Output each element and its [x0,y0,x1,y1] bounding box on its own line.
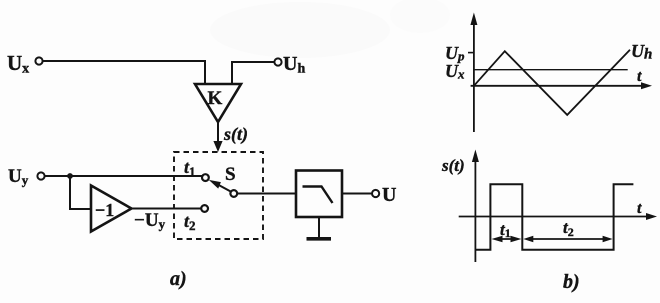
svg-text:s(t): s(t) [441,156,465,175]
svg-text:t2: t2 [184,211,196,233]
svg-text:Uh: Uh [631,41,652,63]
svg-text:−Uy: −Uy [134,210,166,232]
svg-text:Ux: Ux [7,51,29,77]
svg-text:t1: t1 [184,157,196,179]
svg-text:t: t [637,200,642,217]
svg-text:a): a) [170,268,187,290]
svg-text:t1: t1 [500,220,511,240]
svg-text:−1: −1 [95,200,114,220]
svg-text:U: U [382,184,396,206]
svg-text:s(t): s(t) [223,124,248,145]
svg-text:Uy: Uy [8,166,29,188]
svg-text:S: S [225,164,236,185]
svg-text:K: K [208,88,223,109]
svg-text:b): b) [563,271,580,293]
svg-text:t2: t2 [563,218,574,239]
svg-text:Ux: Ux [445,61,465,82]
svg-text:t: t [637,68,642,85]
